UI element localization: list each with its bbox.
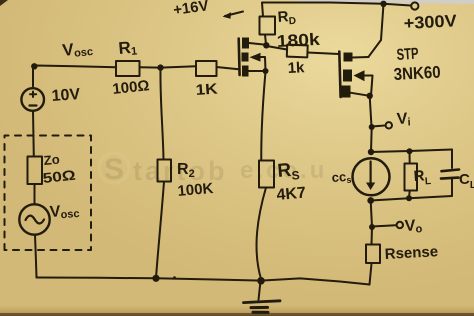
wire R4 to Q2 gate <box>308 53 339 55</box>
junction R2 bottom <box>152 275 159 282</box>
capacitor CL <box>441 150 459 196</box>
terminal Vo <box>397 222 403 228</box>
transistor Q1 MOSFET <box>239 38 266 77</box>
resistor RD <box>260 17 276 35</box>
wire bottom ground rail <box>37 278 370 285</box>
wire bottom of RL/CL loop <box>371 196 452 201</box>
svg-text:10V: 10V <box>51 86 81 105</box>
wire RL top stub <box>409 151 411 163</box>
wire junction A down to R2 top <box>160 68 163 160</box>
wire CCS top to RL top and CL top <box>371 150 452 153</box>
svg-text:STP: STP <box>396 45 419 64</box>
junction Q1 source <box>263 68 269 74</box>
wire R1 right to junction A to 1K left <box>140 66 197 67</box>
transistor Q2 STP 3NK60 <box>339 52 372 98</box>
resistor R4 1k (gate resistor) <box>287 45 308 58</box>
wire CCS bottom down to Vo junction <box>371 201 372 227</box>
junction A (R2 tap) <box>157 64 163 70</box>
resistor R3 1K <box>196 61 217 76</box>
wire node D up to RD bottom <box>265 35 266 45</box>
current source CCS <box>353 158 390 195</box>
wire RL bottom stub <box>408 191 411 199</box>
junction RL bottom <box>406 195 412 201</box>
terminal Vi <box>386 122 392 128</box>
svg-text:+300V: +300V <box>403 11 458 33</box>
junction CCS bottom <box>367 197 374 204</box>
wire RS bottom to ground junction <box>257 188 266 280</box>
junction RL top <box>407 148 413 154</box>
svg-text:1K: 1K <box>195 80 218 99</box>
wire Vosc bottom to bottom rail corner <box>35 235 37 278</box>
junction Vo <box>369 224 375 230</box>
resistor RS <box>259 161 274 188</box>
svg-text:1k: 1k <box>287 59 305 77</box>
resistor RL <box>405 164 418 191</box>
wire +300V rail down to Q2 drain <box>369 4 384 57</box>
junction node D (drain / RD bottom) <box>263 42 269 48</box>
dashed source enclosure box <box>5 136 92 251</box>
wire 1K right to Q1 gate <box>217 67 239 69</box>
wire Vo junction down to Rsense <box>371 228 374 245</box>
wire Vi junction down to CCS top <box>370 128 373 152</box>
wire Vo stub to terminal <box>372 225 396 226</box>
junction CCS top <box>368 149 374 155</box>
arrow pointing to +16V node <box>225 12 243 17</box>
wire Rsense bottom to rail <box>370 264 372 285</box>
svg-text:Zo: Zo <box>43 152 60 168</box>
junction rail tick <box>173 276 176 279</box>
resistor Rsense <box>366 245 380 264</box>
junction ground <box>257 277 265 285</box>
resistor R1 <box>116 61 140 76</box>
wire R2 bottom to bottom rail <box>156 182 164 279</box>
voltage source V1 10V <box>21 88 44 111</box>
wire RD top to +300V rail <box>262 3 384 17</box>
ground <box>244 281 281 312</box>
resistor R2 <box>158 160 172 182</box>
junction Vi <box>369 124 375 130</box>
wire node D to R4 1k <box>267 46 288 50</box>
junction top rail <box>380 1 386 7</box>
terminal +300V <box>411 2 418 9</box>
svg-text:100K: 100K <box>177 180 214 200</box>
wire Q1 source down to RS top <box>261 72 265 161</box>
wire Q1 drain to node D <box>249 43 266 45</box>
junction corner blob <box>31 63 37 69</box>
svg-text:Rsense: Rsense <box>384 243 438 263</box>
resistor Zo <box>28 157 43 185</box>
svg-text:4K7: 4K7 <box>276 184 307 204</box>
wire V1 bottom to Zo top <box>32 111 35 157</box>
wire rail to +300V terminal <box>384 4 411 6</box>
svg-text:3NK60: 3NK60 <box>393 63 441 84</box>
ac source Vosc <box>19 204 49 234</box>
wire top-left: V1 top corner to R1 left <box>33 66 116 87</box>
svg-text:S: S <box>104 153 124 186</box>
watermark (decorative) <box>99 153 327 186</box>
wire Vi stub to terminal <box>372 126 385 127</box>
wire Zo bottom to Vosc source top <box>34 184 36 205</box>
wire Q2 source down to Vi junction <box>370 96 372 127</box>
wire Q2 drain to rail drop <box>353 56 369 59</box>
junction Q2 source <box>367 93 373 99</box>
